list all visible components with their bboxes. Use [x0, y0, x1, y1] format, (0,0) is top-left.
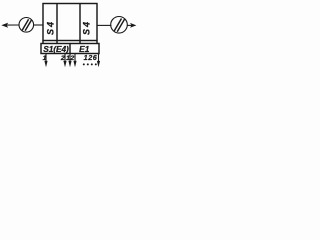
wire left arrow lead	[5, 24, 20, 26]
fuse box divider 2	[79, 4, 81, 41]
svg-text:S1(E4): S1(E4)	[43, 44, 69, 54]
pin wire 3	[69, 54, 71, 63]
connector right circle	[111, 17, 128, 34]
stub x97	[96, 41, 98, 44]
svg-text:2: 2	[69, 55, 74, 62]
pin wire 126	[98, 54, 100, 63]
svg-text:126: 126	[84, 53, 98, 62]
stub x80	[79, 41, 81, 44]
pin arrowhead 2	[63, 61, 66, 67]
right circle slash 2	[117, 19, 124, 31]
pin arrowhead 126	[97, 61, 100, 67]
component box S1(E4)/E1	[41, 44, 99, 54]
svg-text:S4: S4	[81, 20, 91, 35]
fuse box outline	[43, 4, 97, 41]
dots continuation	[83, 63, 85, 65]
pin wire 4	[74, 54, 76, 63]
wire right circle to arrow	[127, 24, 132, 26]
left circle slash 2	[25, 20, 31, 31]
svg-text:1: 1	[43, 55, 47, 62]
wire circle to box	[33, 24, 43, 26]
left arrowhead	[1, 23, 8, 28]
right arrowhead	[130, 23, 136, 28]
right circle slash 1	[114, 19, 121, 32]
pin arrowhead 3	[68, 61, 71, 67]
pin arrowhead 4	[73, 61, 76, 67]
component box divider	[69, 44, 71, 54]
wire box to right circle	[97, 24, 111, 26]
fuse box divider 1	[56, 4, 58, 41]
connector left circle	[19, 18, 34, 33]
stub x43	[42, 41, 44, 44]
pin wire 1	[45, 54, 47, 63]
pin arrowhead 1	[44, 61, 47, 67]
pin wire 2	[64, 54, 66, 63]
stub x57	[56, 41, 58, 44]
svg-text:S4: S4	[46, 20, 56, 35]
svg-text:2: 2	[60, 55, 65, 62]
left circle slash 1	[22, 19, 28, 30]
